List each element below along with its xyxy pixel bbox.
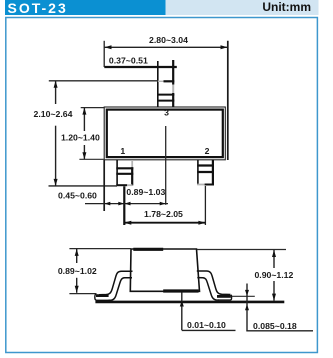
svg-text:2.80~3.04: 2.80~3.04: [149, 35, 188, 45]
svg-text:2.10~2.64: 2.10~2.64: [34, 109, 73, 119]
svg-text:Unit:mm: Unit:mm: [262, 0, 311, 14]
svg-text:0.37~0.51: 0.37~0.51: [109, 56, 148, 66]
svg-text:SOT-23: SOT-23: [8, 0, 68, 16]
svg-text:1: 1: [120, 146, 125, 156]
svg-text:0.085~0.18: 0.085~0.18: [253, 321, 297, 331]
svg-text:0.45~0.60: 0.45~0.60: [58, 190, 97, 200]
svg-text:3: 3: [164, 107, 169, 117]
svg-text:0.90~1.12: 0.90~1.12: [254, 270, 293, 280]
svg-text:0.89~1.02: 0.89~1.02: [58, 266, 97, 276]
svg-text:0.89~1.03: 0.89~1.03: [126, 187, 165, 197]
svg-text:1.78~2.05: 1.78~2.05: [144, 209, 183, 219]
svg-text:0.01~0.10: 0.01~0.10: [187, 320, 226, 330]
svg-text:2: 2: [205, 146, 210, 156]
svg-text:1.20~1.40: 1.20~1.40: [61, 132, 100, 142]
